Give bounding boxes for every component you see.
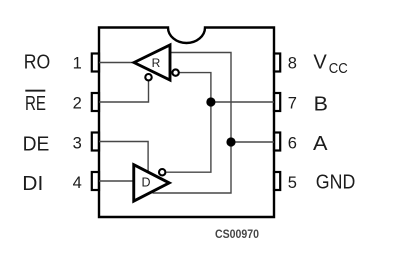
svg-text:A: A bbox=[313, 132, 328, 155]
driver D triangle bbox=[134, 165, 169, 201]
pin 5 stub bbox=[274, 172, 280, 190]
wire net A: receiver + input, down right side, to driver lower output bbox=[153, 53, 232, 194]
receiver R triangle bbox=[134, 45, 170, 80]
svg-text:4: 4 bbox=[73, 174, 82, 192]
wire pin1 RO to receiver output bbox=[99, 62, 134, 64]
pin 1 stub bbox=[92, 54, 99, 72]
pin 6 stub bbox=[274, 133, 280, 151]
svg-text:2: 2 bbox=[73, 95, 82, 113]
pin 2 stub bbox=[92, 93, 99, 111]
svg-text:7: 7 bbox=[288, 95, 297, 113]
pin 7 stub bbox=[274, 93, 280, 111]
svg-text:RO: RO bbox=[24, 51, 51, 74]
svg-text:5: 5 bbox=[288, 174, 297, 192]
pin 8 stub bbox=[274, 54, 280, 72]
wire net B: receiver - input bubble, down, to driver inverting output bubble bbox=[166, 73, 211, 173]
svg-text:RE: RE bbox=[25, 92, 46, 115]
wire pin4 DI to driver input bbox=[99, 180, 134, 182]
overline of RE bbox=[25, 90, 45, 92]
pin 4 stub bbox=[92, 172, 99, 190]
svg-text:3: 3 bbox=[73, 135, 82, 153]
svg-text:CS00970: CS00970 bbox=[215, 229, 259, 241]
junction dot net B bbox=[206, 97, 215, 106]
svg-text:DI: DI bbox=[22, 172, 43, 195]
driver inverting output bubble (B) bbox=[159, 169, 165, 175]
svg-text:V: V bbox=[313, 50, 327, 73]
svg-text:R: R bbox=[152, 56, 161, 70]
svg-text:B: B bbox=[314, 92, 328, 115]
wire net A to pin 6 bbox=[231, 141, 274, 143]
wire pin2 RE to receiver enable bubble bbox=[99, 81, 149, 102]
svg-text:6: 6 bbox=[288, 135, 297, 153]
pin 3 stub bbox=[92, 133, 99, 151]
svg-text:D: D bbox=[141, 176, 150, 190]
IC body U1 (DIP-8 outline with index notch) bbox=[99, 28, 274, 218]
svg-text:DE: DE bbox=[23, 132, 50, 155]
receiver enable bubble (RE) bbox=[145, 74, 151, 80]
junction dot net A bbox=[226, 137, 235, 146]
svg-text:CC: CC bbox=[329, 61, 348, 77]
svg-text:8: 8 bbox=[288, 55, 297, 73]
receiver inverting input bubble (B) bbox=[172, 69, 178, 75]
svg-text:GND: GND bbox=[316, 170, 356, 193]
wire pin3 DE to driver enable bbox=[99, 142, 148, 174]
svg-text:1: 1 bbox=[73, 55, 82, 73]
wire net B to pin 7 bbox=[211, 101, 274, 103]
